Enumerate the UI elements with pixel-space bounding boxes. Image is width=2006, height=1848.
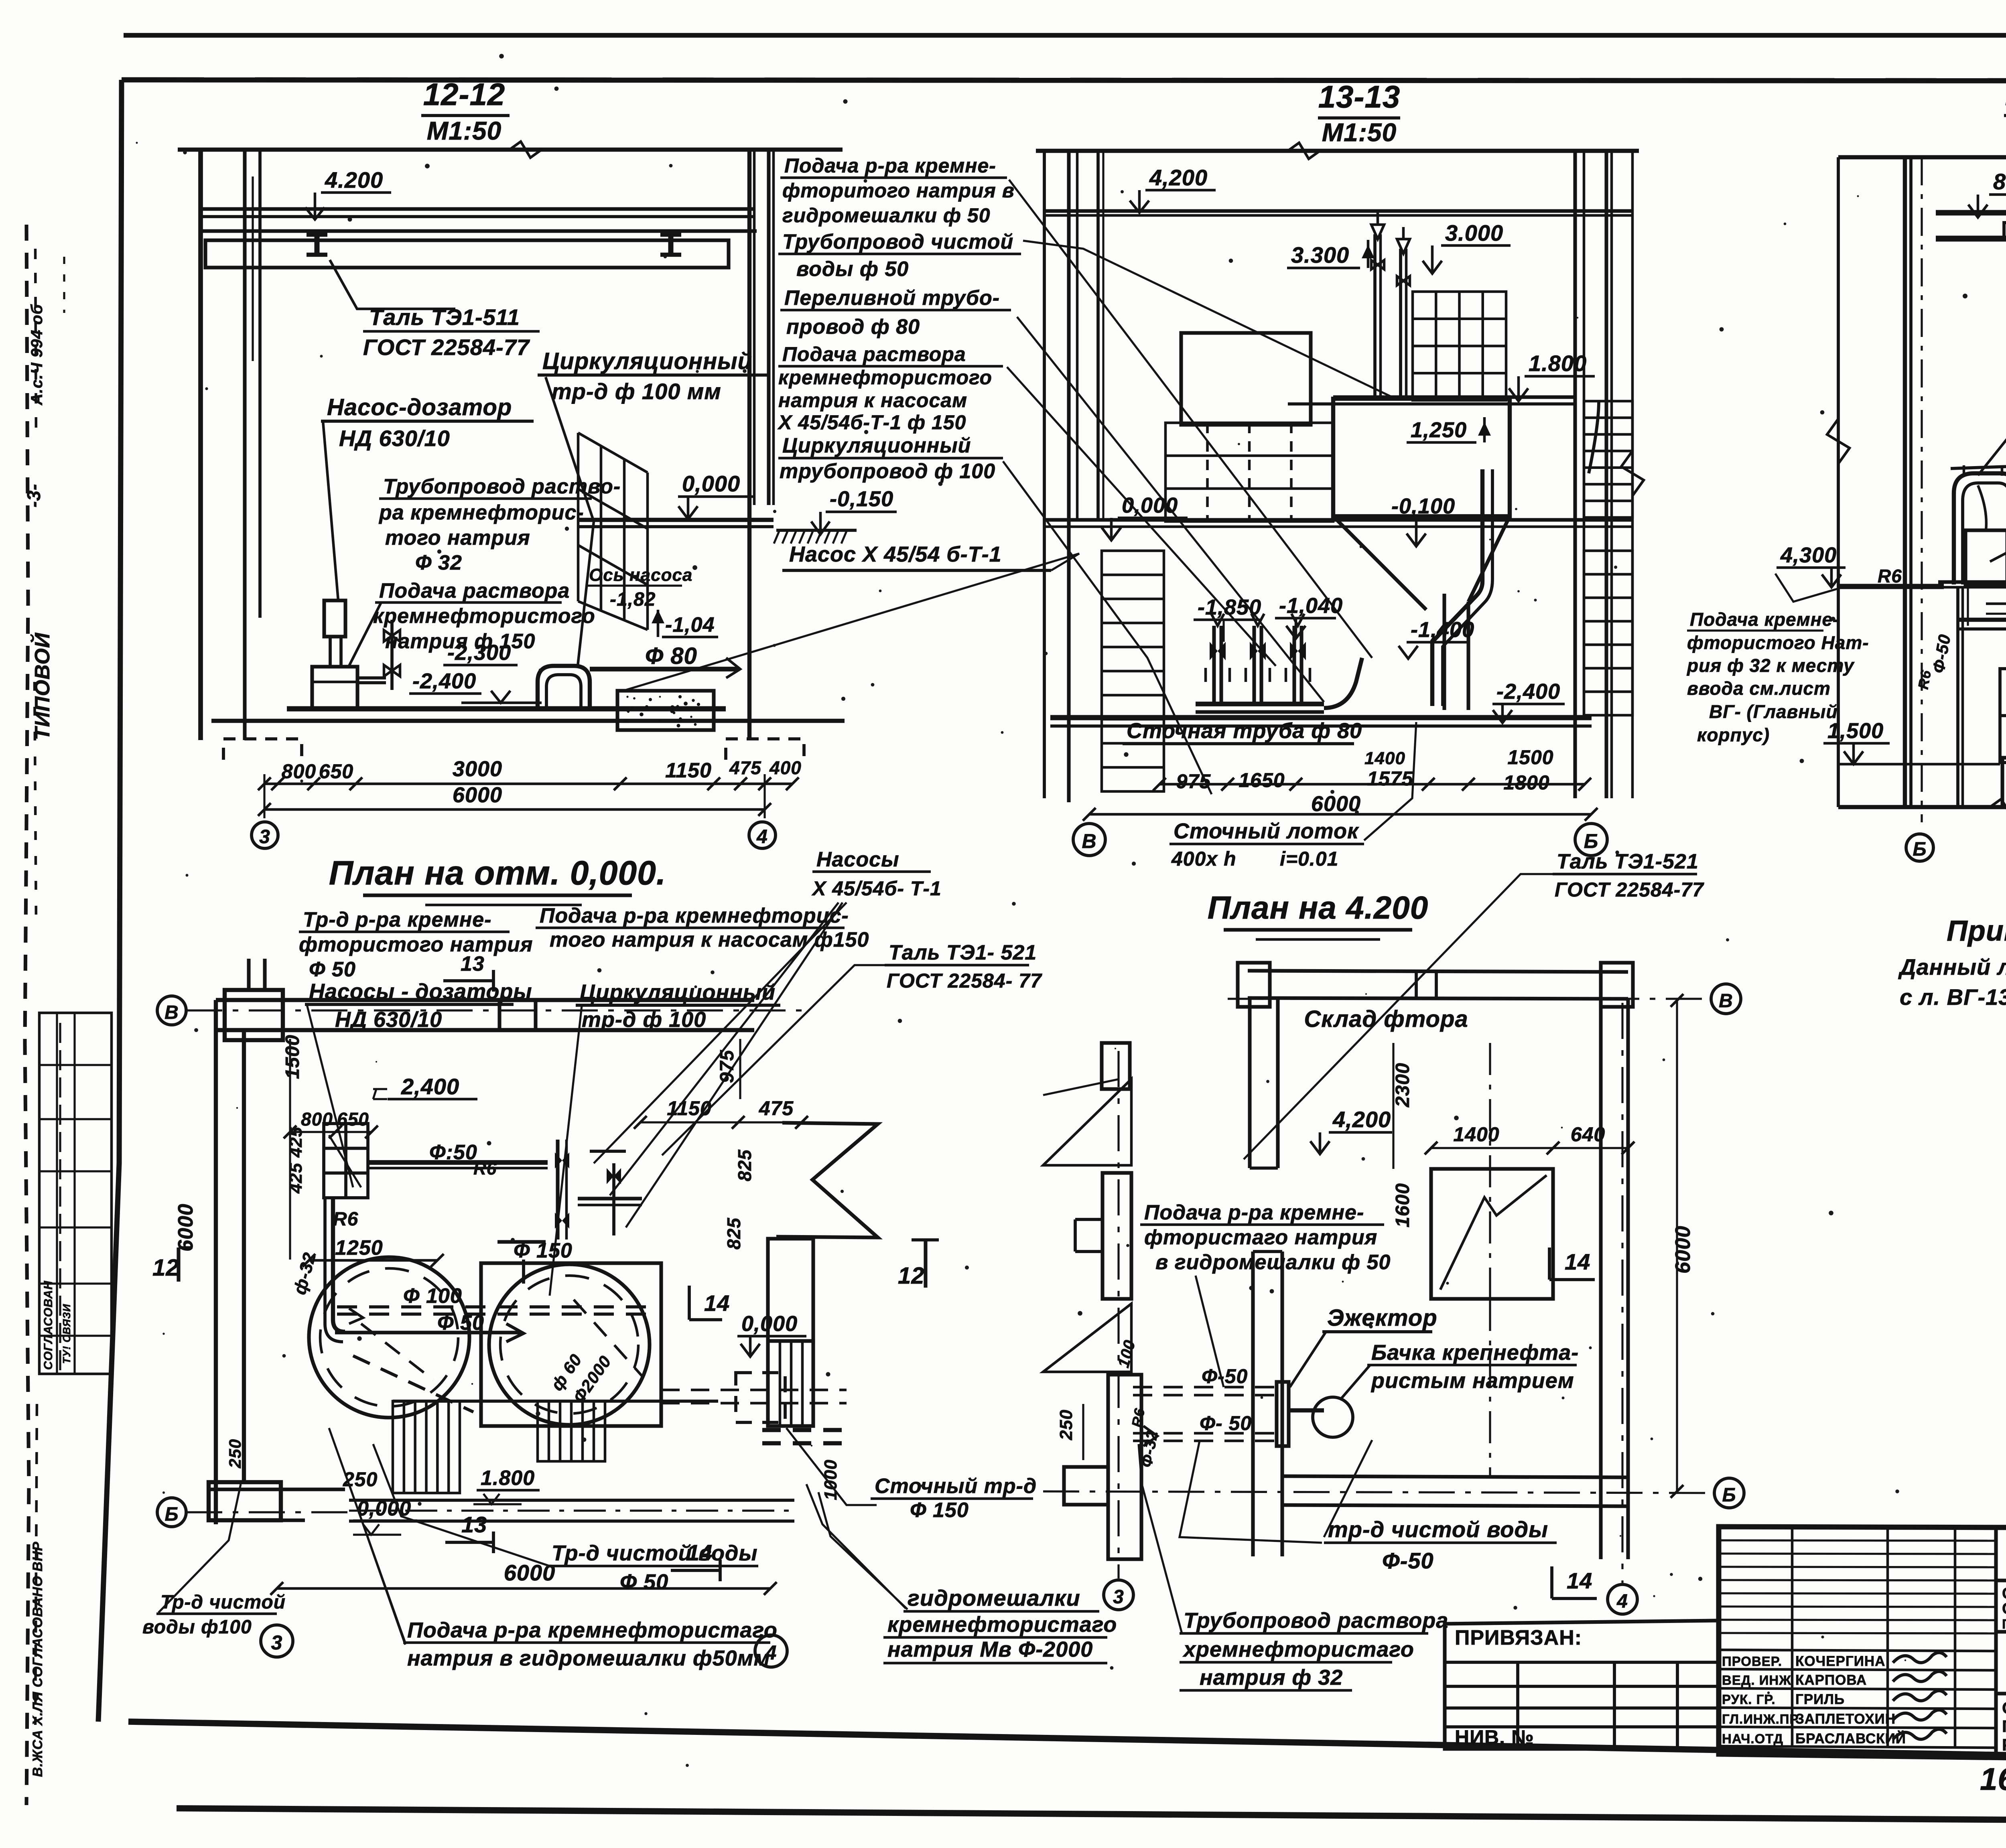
svg-text:3.000: 3.000 — [1445, 220, 1503, 245]
svg-text:В: В — [1719, 990, 1733, 1012]
svg-text:13: 13 — [461, 1512, 487, 1537]
svg-text:гидромешалки ф 50: гидромешалки ф 50 — [782, 204, 991, 227]
svg-text:12: 12 — [152, 1255, 179, 1281]
sheet top outer line — [124, 33, 2006, 38]
svg-text:1500: 1500 — [282, 1035, 303, 1079]
svg-text:1,500: 1,500 — [1827, 719, 1884, 743]
svg-text:фтористого Нат-: фтористого Нат- — [1687, 632, 1869, 653]
svg-text:натрия к насосам: натрия к насосам — [778, 389, 967, 412]
svg-text:С СОДЕРЖАНИЕМ ВЗВЕШЕННЫХ ВЕЩЕС: С СОДЕРЖАНИЕМ ВЗВЕШЕННЫХ ВЕЩЕСТВ ДО 2500… — [2002, 1600, 2006, 1617]
svg-text:650: 650 — [319, 760, 353, 783]
svg-text:Таль ТЭ1-521: Таль ТЭ1-521 — [1557, 850, 1699, 873]
s13 axis circle B — [1575, 824, 1607, 856]
svg-text:6000: 6000 — [1671, 1225, 1695, 1274]
svg-text:Сточная труба ф 80: Сточная труба ф 80 — [1127, 719, 1362, 743]
s12 axis circle 3 — [252, 822, 278, 848]
plan0 tank plate rect — [481, 1263, 661, 1426]
plan0 pipe drop left — [333, 1198, 345, 1332]
svg-text:-1,850: -1,850 — [1198, 595, 1261, 619]
plan42 left column cross 1 — [1102, 1043, 1130, 1089]
svg-text:М1:50: М1:50 — [1322, 118, 1397, 147]
svg-text:2,400: 2,400 — [401, 1074, 459, 1099]
svg-text:R6: R6 — [1129, 1407, 1148, 1428]
s13 left wall pair — [1067, 151, 1070, 802]
s13 ceiling slab — [1044, 209, 1632, 213]
svg-text:Б: Б — [1722, 1485, 1736, 1506]
svg-text:Бачка крепнефта-: Бачка крепнефта- — [1371, 1341, 1579, 1365]
plan0 left wall lower column — [209, 1482, 281, 1520]
plan42 stair break triangles 1 — [1043, 1079, 1131, 1165]
plan42 axis vertical dash 4 — [1621, 1003, 1623, 1583]
svg-text:250: 250 — [1056, 1410, 1076, 1440]
s13 dim row — [1159, 783, 1585, 786]
s12 pump suction pipe — [357, 676, 386, 680]
svg-text:14: 14 — [1565, 1249, 1590, 1274]
s13 left wall thin — [1043, 151, 1046, 798]
svg-text:ВЕД. ИНЖ: ВЕД. ИНЖ — [1722, 1673, 1791, 1688]
svg-text:Насосы: Насосы — [816, 848, 899, 871]
plan42 central wall upper — [1248, 999, 1251, 1168]
tb doc number band — [1996, 1580, 2006, 1582]
svg-text:Ф 50: Ф 50 — [437, 1311, 484, 1335]
svg-text:НАЧ.ОТД: НАЧ.ОТД — [1722, 1731, 1783, 1746]
svg-text:ристым натрием: ристым натрием — [1370, 1369, 1574, 1393]
svg-text:ГОСТ 22584-77: ГОСТ 22584-77 — [1555, 878, 1704, 901]
s12 axis circle 4 — [749, 822, 776, 848]
svg-text:4,200: 4,200 — [1149, 165, 1208, 190]
svg-text:3.300: 3.300 — [1291, 242, 1349, 268]
svg-text:ввода см.лист: ввода см.лист — [1687, 678, 1831, 699]
svg-text:1650: 1650 — [1239, 769, 1285, 791]
s13 platform slab — [1333, 395, 1577, 399]
s12 left wall column pair — [243, 150, 246, 740]
tb signature squiggles — [1893, 1653, 1947, 1663]
privyazan box — [1445, 1621, 1719, 1749]
svg-text:3: 3 — [1113, 1586, 1124, 1608]
plan0 stairs B — [538, 1401, 605, 1461]
svg-text:Трубопровод раство-: Трубопровод раство- — [383, 475, 621, 498]
s13 riser elbow pipe — [1589, 401, 1599, 473]
s14 pedestal — [2002, 758, 2006, 807]
svg-text:фтористаго натрия: фтористаго натрия — [1144, 1226, 1377, 1249]
svg-text:R6: R6 — [333, 1209, 358, 1230]
svg-text:Тр-д чистой воды: Тр-д чистой воды — [552, 1541, 758, 1565]
svg-text:Подача раствора: Подача раствора — [782, 343, 966, 365]
s13 upper tank — [1181, 333, 1311, 425]
s12 right wall pair — [747, 150, 751, 740]
plan0 axis B line — [186, 1511, 361, 1513]
plan42 ejector dashed pipe 1 — [1133, 1386, 1280, 1389]
svg-text:Х 45/54б-Т-1 ф 150: Х 45/54б-Т-1 ф 150 — [777, 411, 966, 434]
plan42 bachok circle — [1313, 1397, 1353, 1437]
s12 dim line 2 — [264, 808, 765, 811]
svg-text:СТАНЦИЯ ОЧИСТКИ ВОДЫ ПОВЕРХНОС: СТАНЦИЯ ОЧИСТКИ ВОДЫ ПОВЕРХНОСТНЫХ ИСТОЧ… — [2002, 1585, 2006, 1602]
svg-text:R6: R6 — [1878, 566, 1902, 586]
svg-text:натрия ф 150: натрия ф 150 — [385, 630, 535, 653]
s12 pump dosator body — [312, 667, 357, 709]
svg-text:рия ф 32 к месту: рия ф 32 к месту — [1686, 655, 1855, 676]
sheet frame top line — [122, 80, 2006, 81]
s14 wall pair with axis — [1903, 157, 1907, 807]
s13 left grid cage — [1165, 423, 1333, 521]
plan0 right tall column — [768, 1239, 813, 1341]
svg-text:ПЛАНЫ НА ОТМ. 0,000 и 4,200.: ПЛАНЫ НА ОТМ. 0,000 и 4,200. — [2002, 1717, 2006, 1736]
plan0 valve assembly — [556, 1140, 559, 1239]
s13 tank hopper — [1333, 516, 1510, 610]
svg-text:Подача р-ра кремне-: Подача р-ра кремне- — [1144, 1201, 1364, 1224]
s14 axis circle B — [1906, 834, 1933, 861]
svg-text:Склад фтора: Склад фтора — [1304, 1006, 1468, 1032]
svg-text:фторитого натрия в: фторитого натрия в — [782, 179, 1015, 202]
plan0 pit edge line — [393, 1400, 718, 1403]
plan42 ejector dashed pipe 2 — [1133, 1432, 1280, 1435]
svg-text:4.200: 4.200 — [325, 167, 383, 193]
svg-text:с л. ВГ-13: с л. ВГ-13 — [1900, 984, 2006, 1010]
svg-text:1600: 1600 — [1392, 1183, 1413, 1227]
svg-text:Таль ТЭ1-511: Таль ТЭ1-511 — [369, 304, 520, 330]
svg-text:1,250: 1,250 — [1411, 418, 1467, 442]
svg-text:6000: 6000 — [504, 1560, 556, 1585]
s14 ejector pipe loop — [1954, 473, 2006, 584]
svg-text:КАРПОВА: КАРПОВА — [1795, 1672, 1867, 1688]
svg-text:РАЗРЕЗЫ 12-12; 13-13; 14-14.: РАЗРЕЗЫ 12-12; 13-13; 14-14. — [2002, 1735, 2006, 1754]
plan42 axis B line — [1043, 1491, 1712, 1493]
tb signature cols — [1791, 1527, 1794, 1747]
svg-text:Ф- 50: Ф- 50 — [1200, 1412, 1252, 1434]
svg-text:ПРОИЗВОДИТЕЛЬНОСТЬЮ 20ТЫС.М/СУ: ПРОИЗВОДИТЕЛЬНОСТЬЮ 20ТЫС.М/СУТКИ С КОНТ… — [2002, 1616, 2006, 1631]
svg-text:800: 800 — [282, 760, 316, 783]
svg-text:провод ф 80: провод ф 80 — [786, 315, 920, 339]
s12 crane beam band — [201, 229, 757, 233]
svg-text:1250: 1250 — [335, 1236, 383, 1260]
tb vertical main divider — [1994, 1527, 1998, 1759]
svg-text:825: 825 — [723, 1217, 744, 1250]
plan0 axis V circle — [157, 996, 186, 1025]
svg-text:4,300: 4,300 — [1780, 543, 1837, 567]
s13 curved drop pipe — [1432, 469, 1482, 706]
plan0 big circle 2 — [489, 1264, 650, 1425]
svg-text:Ф 100: Ф 100 — [403, 1284, 462, 1308]
s13 bottom manifold — [1196, 702, 1324, 706]
svg-text:Подача р-ра кремнефторис-: Подача р-ра кремнефторис- — [540, 904, 849, 927]
plan42 right wall — [1599, 999, 1602, 1559]
left margin scan noise lines — [35, 249, 36, 441]
svg-text:кремнефтористаго: кремнефтористаго — [887, 1613, 1117, 1637]
tb mid separator — [1996, 1630, 2006, 1633]
svg-text:Тр-д р-ра кремне-: Тр-д р-ра кремне- — [303, 908, 492, 931]
svg-text:6000: 6000 — [453, 783, 502, 807]
plan0 pipe f50 horizontal — [368, 1160, 548, 1165]
svg-text:-3-: -3- — [23, 484, 44, 507]
svg-text:ОТДЕЛЕНИЕ ФТОРА.: ОТДЕЛЕНИЕ ФТОРА. — [2002, 1698, 2006, 1717]
s12 perspective railing — [578, 433, 648, 630]
s13 elbow to tank — [1324, 658, 1362, 708]
s13 top chord — [1036, 149, 1639, 153]
svg-text:Б: Б — [1913, 839, 1927, 860]
svg-text:Трубопровод чистой: Трубопровод чистой — [782, 230, 1013, 254]
svg-text:Сточный лоток: Сточный лоток — [1174, 819, 1359, 843]
svg-text:13-13: 13-13 — [1318, 79, 1401, 114]
svg-text:Эжектор: Эжектор — [1327, 1305, 1437, 1331]
s13 right platform grid cage — [1413, 292, 1506, 400]
svg-text:Ф 50: Ф 50 — [620, 1570, 668, 1594]
svg-text:РУК. ГР.: РУК. ГР. — [1722, 1692, 1776, 1707]
svg-text:ТИПОВОЙ: ТИПОВОЙ — [30, 632, 54, 740]
svg-text:R6: R6 — [1915, 669, 1935, 690]
s13 big tank — [1333, 399, 1510, 516]
svg-text:1575: 1575 — [1367, 767, 1413, 790]
svg-text:Ф:50: Ф:50 — [429, 1141, 477, 1164]
s12 top chord — [178, 148, 843, 152]
plan0 pump square — [324, 1124, 368, 1198]
s12 concrete block — [617, 691, 714, 730]
s12 dim line 1 — [264, 783, 792, 785]
svg-text:975: 975 — [1176, 770, 1211, 793]
svg-text:1400: 1400 — [1364, 749, 1405, 768]
tb lower separator — [1996, 1694, 2006, 1694]
svg-text:трубопровод ф 100: трубопровод ф 100 — [780, 460, 995, 483]
s14 pipe elbow run — [1958, 620, 2006, 762]
frame bottom line — [128, 1722, 2006, 1764]
svg-text:13: 13 — [461, 952, 485, 976]
svg-text:План на отм. 0,000.: План на отм. 0,000. — [329, 854, 666, 892]
svg-text:16856-01: 16856-01 — [1980, 1761, 2006, 1797]
svg-text:Циркуляционный: Циркуляционный — [782, 434, 971, 457]
plan0 axis circle 4 bottom — [755, 1635, 787, 1667]
s14 under-floor shelf lines — [1986, 602, 2006, 605]
s12 pipe horizontal f80 — [590, 667, 738, 671]
s12 leader from beam to tal label — [330, 260, 455, 309]
svg-text:Переливной трубо-: Переливной трубо- — [784, 286, 1000, 310]
plan42 axis V circle — [1711, 984, 1741, 1014]
privyazan rows — [1445, 1661, 1719, 1664]
svg-text:Тр-д чистой: Тр-д чистой — [160, 1592, 286, 1613]
s12 crane trolley I-beams — [307, 233, 327, 237]
svg-text:0,000: 0,000 — [682, 471, 740, 496]
plan42 axis circle 3 — [1104, 1580, 1133, 1610]
svg-text:натрия ф 32: натрия ф 32 — [1200, 1665, 1343, 1690]
svg-text:ЗАПЛЕТОХИН: ЗАПЛЕТОХИН — [1795, 1711, 1896, 1727]
svg-text:Ф 150: Ф 150 — [910, 1499, 969, 1522]
plan42 stair break triangles 2 — [1043, 1304, 1131, 1372]
svg-text:-2,400: -2,400 — [412, 669, 476, 693]
s12 pipe loop — [538, 666, 590, 709]
plan42 bottom wall band — [1282, 1476, 1628, 1477]
privyazan cols — [1516, 1662, 1519, 1747]
plan42 hole square — [1431, 1169, 1553, 1299]
s13 pit floor — [1050, 715, 1592, 720]
svg-text:Б: Б — [165, 1504, 179, 1525]
plan42 top wall columns — [1238, 963, 1270, 1007]
svg-text:-1,040: -1,040 — [1279, 594, 1343, 618]
s12 left wall column outer — [198, 150, 203, 740]
svg-text:корпус): корпус) — [1697, 724, 1770, 745]
svg-text:1.800: 1.800 — [481, 1467, 535, 1490]
svg-text:Подача раствора: Подача раствора — [379, 579, 570, 602]
plan0 diagonal dashed pipes — [353, 1356, 473, 1412]
s13 riser pipe 2 — [1399, 249, 1402, 400]
svg-text:Подача кремне-: Подача кремне- — [1690, 609, 1839, 630]
plan42 axis B circle — [1714, 1478, 1744, 1508]
plan0 f50 pipe arrow — [335, 1331, 522, 1334]
svg-text:Ф 32: Ф 32 — [415, 551, 462, 574]
svg-text:8.400: 8.400 — [1993, 169, 2006, 194]
plan0 stairs A — [393, 1401, 460, 1493]
plan42 central wall lower — [1251, 1252, 1255, 1556]
svg-text:640: 640 — [1571, 1123, 1605, 1146]
svg-text:1800: 1800 — [1503, 771, 1549, 794]
plan0 platform edge double line — [349, 1499, 794, 1502]
svg-text:ГЛ.ИНЖ.ПР: ГЛ.ИНЖ.ПР — [1722, 1712, 1799, 1726]
svg-text:Ф-50: Ф-50 — [1202, 1365, 1248, 1388]
svg-text:в гидромешалки ф 50: в гидромешалки ф 50 — [1155, 1251, 1391, 1274]
svg-text:1500: 1500 — [1507, 746, 1553, 769]
title block outline — [1719, 1527, 2006, 1764]
svg-text:Насос Х 45/54 б-Т-1: Насос Х 45/54 б-Т-1 — [789, 542, 1002, 566]
svg-text:НИВ. №: НИВ. № — [1455, 1726, 1534, 1749]
s13 axis circle V — [1073, 824, 1105, 856]
svg-text:250: 250 — [225, 1439, 244, 1469]
svg-text:4: 4 — [756, 826, 768, 848]
svg-text:-0,150: -0,150 — [830, 487, 893, 511]
plan0 top wall columns — [225, 990, 283, 1040]
svg-text:А.с.Ч 994 об: А.с.Ч 994 об — [28, 304, 46, 406]
svg-text:Ф 150: Ф 150 — [514, 1239, 573, 1262]
s14 crane trolley — [2004, 223, 2006, 238]
s13 floor slab — [1044, 518, 1632, 521]
svg-text:хремнефтористаго: хремнефтористаго — [1182, 1637, 1414, 1661]
plan0 heavy dashes below column — [762, 1428, 843, 1432]
svg-text:ТУ! СВЯЗИ: ТУ! СВЯЗИ — [61, 1304, 73, 1364]
plan42 axis vertical dash 3 — [1117, 1051, 1119, 1578]
s13 right wall pair — [1573, 151, 1577, 798]
svg-text:Трубопровод раствора: Трубопровод раствора — [1184, 1609, 1448, 1633]
plan0 top wall band — [216, 998, 754, 1002]
svg-text:-2,400: -2,400 — [1496, 680, 1560, 704]
svg-text:475: 475 — [729, 757, 761, 778]
s12 basement floor — [287, 706, 726, 712]
svg-text:1150: 1150 — [667, 1097, 712, 1120]
svg-text:1150: 1150 — [665, 759, 712, 782]
plan42 left column cross 3 — [1108, 1375, 1141, 1559]
svg-text:Примечание:: Примечание: — [1947, 915, 2006, 947]
plan42 top wall band — [1248, 971, 1628, 972]
plan0 f100 dashed pipe — [337, 1305, 658, 1308]
ground hatch mid — [776, 529, 857, 532]
s13 right dim line — [1631, 151, 1634, 798]
s13 bottom pump pipes — [1212, 626, 1216, 704]
s12 pump motor — [324, 600, 345, 637]
svg-text:Ф 50: Ф 50 — [309, 958, 356, 981]
svg-text:План на 4.200: План на 4.200 — [1208, 890, 1429, 925]
plan42 left column cross 2 — [1102, 1173, 1131, 1299]
svg-text:БРАСЛАВСКИЙ: БРАСЛАВСКИЙ — [1795, 1730, 1906, 1747]
svg-text:ра кремнефторис-: ра кремнефторис- — [378, 501, 584, 524]
svg-text:Ф 80: Ф 80 — [645, 643, 697, 669]
s14 pipe at 4.300 — [1838, 584, 1944, 589]
svg-text:КОЧЕРГИНА: КОЧЕРГИНА — [1795, 1653, 1885, 1669]
svg-text:975: 975 — [717, 1050, 738, 1083]
plan42 axis cross dash — [1489, 1043, 1491, 1299]
svg-text:натрия в гидромешалки ф50мм: натрия в гидромешалки ф50мм — [407, 1646, 770, 1670]
svg-text:Б: Б — [1584, 830, 1598, 852]
svg-text:Подача р-ра кремнефтористаго: Подача р-ра кремнефтористаго — [407, 1618, 778, 1642]
svg-text:3: 3 — [271, 1631, 283, 1654]
svg-text:воды ф 50: воды ф 50 — [796, 258, 909, 281]
tb signature rows — [1719, 1650, 1996, 1651]
s13 riser pipe 1 — [1373, 234, 1377, 400]
svg-text:В: В — [164, 1002, 179, 1023]
s12 foundation dashed right — [726, 739, 804, 760]
plan42 axis circle 4 — [1608, 1584, 1637, 1614]
svg-text:-1,04: -1,04 — [665, 613, 715, 637]
s14 riser pipes left — [1956, 587, 1959, 807]
s13 right inner wall — [1604, 151, 1608, 798]
scan specks — [694, 986, 697, 988]
s14 left dim line — [1837, 157, 1840, 807]
svg-text:Данный лист смотри совместна: Данный лист смотри совместна — [1898, 954, 2006, 980]
svg-text:-0,100: -0,100 — [1391, 494, 1455, 518]
svg-text:6000: 6000 — [1311, 792, 1361, 816]
svg-text:Ф-50: Ф-50 — [1382, 1548, 1434, 1573]
tb upper-left fine grid rows — [1719, 1540, 1996, 1541]
svg-text:4,200: 4,200 — [1332, 1107, 1391, 1132]
svg-text:того натрия к насосам ф150: того натрия к насосам ф150 — [550, 928, 869, 951]
svg-text:14: 14 — [704, 1290, 730, 1316]
s14 floor 4.200 — [1938, 580, 2006, 584]
svg-text:6000: 6000 — [174, 1203, 197, 1252]
svg-text:того натрия: того натрия — [385, 526, 530, 550]
plan0 big circle 1 — [309, 1257, 469, 1418]
svg-text:ГОСТ 22584-77: ГОСТ 22584-77 — [363, 335, 530, 360]
svg-text:12: 12 — [898, 1263, 925, 1289]
frame left vertical — [98, 80, 122, 1722]
svg-text:-1,400: -1,400 — [1411, 618, 1474, 642]
svg-text:1400: 1400 — [1453, 1123, 1499, 1146]
svg-text:12-12: 12-12 — [423, 77, 506, 112]
svg-text:ГРИЛЬ: ГРИЛЬ — [1795, 1692, 1845, 1707]
svg-text:ГОСТ 22584- 77: ГОСТ 22584- 77 — [887, 970, 1042, 992]
svg-text:НД 630/10: НД 630/10 — [339, 426, 450, 451]
s13 right stairs — [1584, 401, 1632, 517]
s14 floor line bottom — [1838, 805, 2006, 809]
s13 left stairs below floor — [1102, 551, 1164, 791]
sheet bottom outer edge — [177, 1808, 2006, 1823]
plan0 left wall — [214, 1000, 218, 1524]
svg-text:14: 14 — [1567, 1568, 1592, 1593]
svg-text:4: 4 — [1616, 1591, 1628, 1612]
svg-text:825: 825 — [734, 1149, 755, 1181]
svg-text:i=0.01: i=0.01 — [1280, 848, 1338, 870]
svg-text:Циркуляционный: Циркуляционный — [542, 348, 752, 374]
svg-text:ПРОВЕР.: ПРОВЕР. — [1722, 1654, 1782, 1669]
svg-text:натрия Мв Ф-2000: натрия Мв Ф-2000 — [887, 1637, 1093, 1661]
svg-text:СОГЛАСОВАН: СОГЛАСОВАН — [42, 1280, 55, 1370]
svg-text:Подача р-ра кремне-: Подача р-ра кремне- — [784, 154, 996, 177]
svg-text:воды ф100: воды ф100 — [142, 1617, 252, 1638]
svg-text:Сточный тр-д: Сточный тр-д — [875, 1475, 1037, 1498]
svg-text:0,000: 0,000 — [1122, 493, 1178, 517]
svg-text:тр-д чистой воды: тр-д чистой воды — [1328, 1517, 1548, 1542]
plan0 axis V line — [186, 1009, 802, 1011]
svg-text:Х 45/54б- Т-1: Х 45/54б- Т-1 — [811, 877, 942, 900]
svg-text:1.800: 1.800 — [1529, 351, 1587, 376]
s14 window — [2000, 669, 2006, 763]
svg-text:3000: 3000 — [453, 757, 502, 781]
s13 dim row 2 — [1089, 813, 1591, 816]
left margin scan edge — [25, 225, 29, 1805]
svg-text:475: 475 — [759, 1097, 794, 1120]
